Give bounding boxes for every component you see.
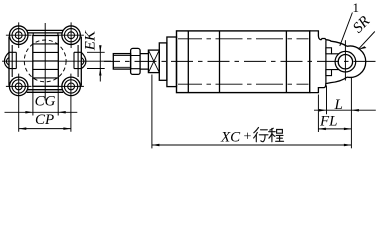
node spherical ball circle (338, 55, 352, 69)
node rear cap profile (310, 31, 347, 46)
node right lug (81, 52, 86, 68)
node front cap2 (167, 37, 177, 87)
svg-text:L: L (334, 97, 343, 113)
wire tie rod centerlines (178, 39, 309, 84)
wire cap bottom edges (27, 90, 63, 93)
wire leader 1 (340, 13, 353, 46)
node rod nut (131, 48, 141, 74)
wire EK extension lines (87, 52, 105, 68)
node left lug (4, 52, 9, 68)
wire clevis inner horizontals (332, 54, 339, 70)
node bolt boss TL (9, 26, 28, 45)
label hanzi cheng (269, 128, 284, 142)
node left-view centerline horizontal (2, 60, 111, 62)
node main centerline front view (104, 60, 377, 62)
svg-text:CP: CP (35, 112, 54, 128)
dimension XC (151, 75, 153, 149)
svg-text:SR: SR (350, 13, 373, 36)
svg-text:+: + (244, 130, 252, 145)
node clevis top box (326, 48, 332, 54)
wire cap left edge (8, 37, 10, 86)
node bolt boss TR (62, 26, 81, 45)
node eye vertical centerline (344, 40, 346, 80)
dimension FL (317, 95, 319, 133)
node bolt boss BR (62, 77, 81, 96)
svg-text:EK: EK (83, 30, 99, 51)
dimension CP (19, 128, 71, 130)
wire bolt crosshair TL (6, 22, 32, 48)
node rod thread stub (113, 54, 130, 70)
node clevis bottom box (326, 70, 332, 76)
svg-text:XC: XC (220, 129, 241, 145)
node clevis tab ladder (33, 36, 59, 87)
wire EK dimension line (99, 46, 101, 82)
dimension L (326, 86, 328, 115)
node rod coupler X-box (148, 50, 159, 73)
node front gland cap1 (159, 43, 167, 80)
node bolt boss BL (9, 77, 28, 96)
wire bolt crosshair BL + CP extension (6, 74, 32, 132)
wire cap right edge (80, 37, 82, 86)
wire cap top edges (27, 30, 63, 33)
wire bolt crosshair BR + CP extension (58, 74, 84, 132)
node left-view centerline vertical (44, 23, 46, 101)
node clevis nose arc SR (347, 46, 366, 77)
node cylinder tube (177, 31, 310, 93)
wire tube joint lines (188, 31, 286, 93)
svg-text:CG: CG (35, 94, 56, 110)
wire SR arrow (359, 32, 375, 49)
node bearing housing circle (335, 51, 356, 72)
node clevis face (325, 40, 327, 83)
label hanzi xing (254, 128, 268, 142)
node bore circle dashed (24, 40, 66, 82)
dimension CG (33, 86, 58, 115)
node piston rod (140, 54, 148, 70)
wire bolt crosshair TR (58, 22, 84, 48)
svg-text:FL: FL (319, 114, 338, 130)
svg-text:1: 1 (353, 0, 360, 15)
